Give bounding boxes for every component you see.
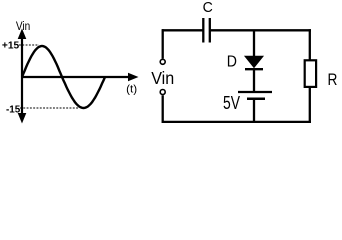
wire: middle branch top (top rail to diode) xyxy=(253,30,255,57)
battery 5V short plate xyxy=(247,97,265,100)
horizontal axis (t) xyxy=(22,76,130,78)
diode cathode bar xyxy=(245,68,263,70)
-15 dashed level line xyxy=(20,107,79,109)
wire: top rail left segment (to capacitor) xyxy=(162,29,203,31)
wire: right branch upper (top-right corner to resistor) xyxy=(309,29,311,59)
wire: diode to battery xyxy=(253,69,255,92)
diode D (cathode down) xyxy=(245,56,263,67)
wire: top rail right segment (capacitor to top-right corner) xyxy=(211,29,311,31)
input terminal top (open circle) xyxy=(160,59,165,64)
svg-text:5V: 5V xyxy=(223,93,240,113)
svg-text:-15: -15 xyxy=(6,104,21,115)
resistor R (box) xyxy=(305,60,316,87)
wire: left branch lower (bottom terminal down to bottom rail) xyxy=(162,95,164,123)
+15 dashed level line xyxy=(19,44,39,46)
horizontal axis arrowhead xyxy=(128,73,139,82)
svg-text:Vin: Vin xyxy=(151,68,174,88)
wire: battery to bottom rail xyxy=(253,99,255,123)
input terminal bottom (open circle) xyxy=(160,90,165,95)
waveform graph: vertical axis (Vin) xyxy=(21,37,23,115)
svg-text:Vin: Vin xyxy=(16,19,30,33)
svg-text:R: R xyxy=(328,70,338,89)
wire: left branch upper (corner down to top terminal) xyxy=(162,29,164,58)
sine wave curve xyxy=(22,46,105,108)
battery 5V long plate xyxy=(238,91,272,93)
vertical axis arrowhead top xyxy=(18,29,27,40)
capacitor C plates xyxy=(202,18,204,43)
svg-text:+15: +15 xyxy=(2,41,20,52)
svg-text:(t): (t) xyxy=(126,84,137,96)
wire: resistor to bottom rail xyxy=(309,88,311,123)
svg-text:C: C xyxy=(203,0,213,16)
wire: bottom rail xyxy=(162,121,311,123)
vertical axis arrowhead bottom xyxy=(18,113,27,124)
svg-text:D: D xyxy=(227,53,237,70)
